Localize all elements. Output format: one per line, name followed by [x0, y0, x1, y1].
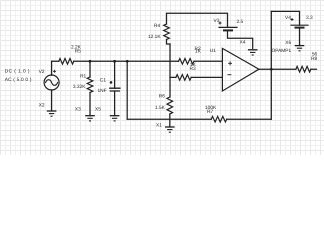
node dot R1/rail [89, 60, 92, 63]
resistor R4 [164, 24, 170, 40]
svg-text:V4: V4 [285, 15, 291, 21]
wire V2 bottom stem [51, 90, 53, 111]
svg-text:AC ( 5.0 0 ): AC ( 5.0 0 ) [5, 77, 32, 83]
node dot down-wire/rail [126, 60, 129, 63]
svg-text:DC ( 1.0 ): DC ( 1.0 ) [5, 68, 30, 74]
svg-text:12.1K: 12.1K [148, 34, 161, 40]
svg-text:R4: R4 [154, 23, 160, 29]
svg-text:R5: R5 [75, 49, 81, 55]
wire R4 bottom jog to node vertical [167, 40, 171, 45]
svg-text:V2: V2 [39, 69, 45, 75]
battery V3 [219, 26, 237, 28]
voltage source V2 [44, 75, 59, 90]
svg-text:C1: C1 [100, 78, 106, 84]
svg-text:U1: U1 [210, 48, 216, 54]
node dot C1/rail [113, 60, 116, 63]
ground symbols [47, 46, 305, 133]
ground X2 [47, 111, 57, 116]
svg-text:V3: V3 [214, 18, 220, 24]
svg-text:R1: R1 [80, 74, 86, 80]
resistor R7 [211, 116, 227, 122]
capacitor C1 [110, 88, 120, 91]
resistor R8 [296, 66, 311, 72]
C1 polarity dot [110, 81, 113, 84]
ground X5 [110, 116, 120, 121]
svg-text:R8: R8 [311, 56, 317, 62]
wire V4 supply vertical [270, 11, 272, 119]
resistor R2 [179, 59, 195, 65]
wire down to bottom rail [126, 61, 128, 119]
ground X3 [85, 116, 95, 121]
battery V4 [291, 24, 308, 26]
svg-text:X4: X4 [240, 40, 246, 46]
op-amp plus/minus [228, 61, 233, 74]
svg-text:X2: X2 [39, 103, 45, 109]
wire R2 to op-amp [194, 60, 222, 62]
wire bottom rail [127, 118, 271, 120]
svg-text:X3: X3 [75, 107, 81, 113]
resistor R5 [59, 59, 74, 65]
wire node vertical [169, 44, 171, 97]
svg-text:OPAMP1: OPAMP1 [272, 48, 292, 54]
V4 plus [291, 18, 294, 21]
node dot output/feedback [270, 68, 273, 71]
wire node A rail [52, 60, 179, 62]
resistor R1 [87, 77, 93, 93]
svg-text:3.3: 3.3 [306, 15, 313, 21]
svg-text:3.32K: 3.32K [73, 84, 86, 90]
svg-text:1.5K: 1.5K [155, 105, 166, 111]
wire V2 top stem [51, 61, 53, 75]
svg-text:2.5: 2.5 [237, 19, 244, 25]
V3 plus [219, 22, 222, 25]
wire R4 top [167, 13, 228, 27]
wire op-amp output [259, 68, 317, 70]
ground X6 [295, 46, 305, 51]
svg-text:R6: R6 [159, 93, 165, 99]
V2 plus [53, 70, 56, 73]
svg-text:1NF: 1NF [98, 88, 107, 94]
ground X4 [248, 50, 258, 55]
wire V4 top [271, 11, 299, 25]
svg-text:R7: R7 [207, 109, 213, 115]
wire R1 branch [89, 61, 91, 115]
svg-text:X5: X5 [95, 107, 101, 113]
wire V3 bottom to ground [228, 30, 253, 48]
resistor R6 [167, 97, 173, 114]
junction dots [89, 60, 273, 84]
wire R3 branch [170, 76, 222, 78]
svg-text:X1: X1 [156, 122, 162, 128]
resistor R3 [176, 75, 191, 81]
wire C1 branch [114, 61, 116, 115]
ground X1 [165, 127, 175, 132]
wire R6 bottom to ground [169, 114, 171, 127]
svg-text:R3: R3 [190, 66, 196, 72]
wire V4 to ground [299, 28, 301, 46]
svg-text:1K: 1K [195, 49, 202, 55]
svg-text:X6: X6 [285, 40, 291, 46]
op-amp U1 [222, 48, 259, 91]
